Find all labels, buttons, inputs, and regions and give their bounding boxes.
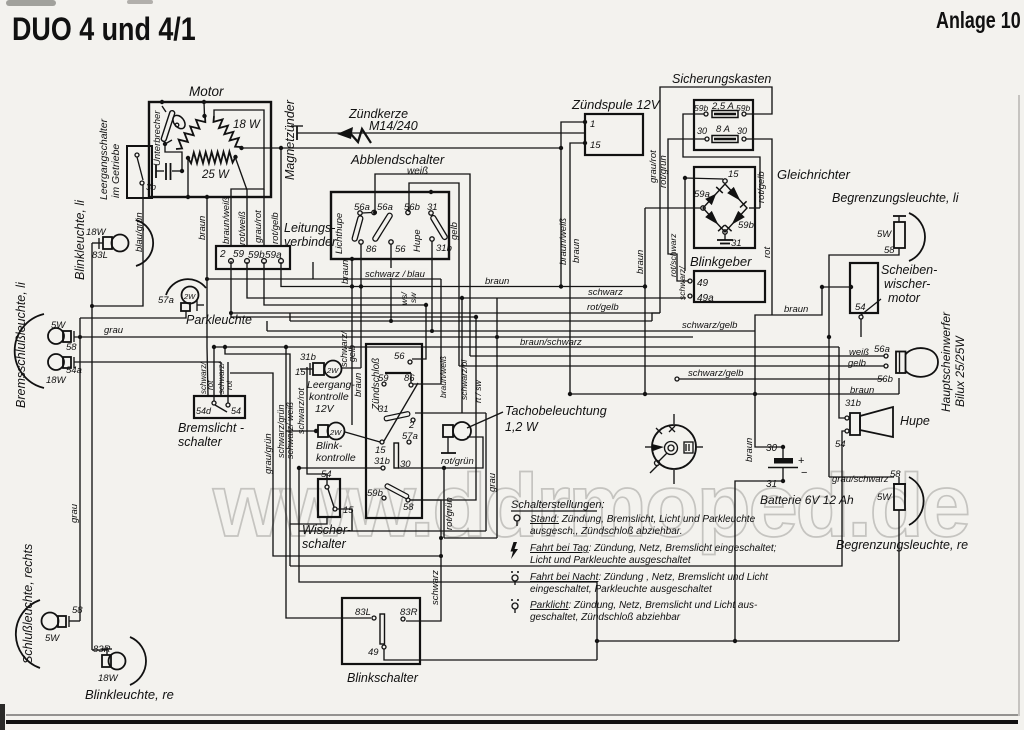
svg-text:56: 56 (395, 244, 406, 255)
svg-text:59b: 59b (694, 103, 708, 113)
svg-text:rot: rot (206, 380, 215, 390)
bus weiss to 56a (470, 355, 884, 357)
svg-text:56a: 56a (377, 202, 393, 213)
svg-text:rot/gelb: rot/gelb (270, 212, 281, 244)
wire schwarz/gruen vertical (286, 347, 371, 618)
svg-text:Blinkleuchte, li: Blinkleuchte, li (73, 199, 87, 280)
capacitor C (155, 165, 157, 178)
svg-text:rot/gelb: rot/gelb (587, 302, 619, 313)
svg-text:rot: rot (225, 380, 234, 390)
wire 31b chain down (299, 468, 597, 582)
svg-text:12V: 12V (315, 403, 335, 415)
svg-text:rot/grün: rot/grün (441, 456, 474, 467)
svg-text:braun/weiß: braun/weiß (558, 218, 569, 265)
wires motor to connector (206, 197, 208, 279)
svg-text:49: 49 (697, 278, 709, 289)
svg-text:58: 58 (72, 605, 83, 616)
svg-text:Schalterstellungen:: Schalterstellungen: (511, 499, 605, 511)
lamp Blinkleuchte re (85, 637, 174, 702)
spark plug Zuendkerze symbol (337, 107, 418, 143)
svg-text:schwarz/: schwarz/ (677, 265, 687, 300)
bus line y321 (290, 320, 652, 322)
svg-text:schalter: schalter (302, 537, 347, 551)
svg-text:braun: braun (635, 250, 646, 274)
svg-text:54: 54 (855, 302, 866, 313)
wire grau/rot loop over fuse box (660, 87, 772, 313)
svg-text:braun: braun (571, 239, 582, 263)
fuse box Sicherungskasten (672, 72, 771, 150)
svg-text:56a: 56a (874, 344, 890, 355)
svg-text:schwarz/gelb: schwarz/gelb (688, 368, 743, 379)
switch Leergangschalter im Getriebe (98, 118, 156, 200)
svg-text:rt / sw: rt / sw (473, 379, 483, 403)
svg-text:Blinkgeber: Blinkgeber (690, 254, 752, 269)
svg-text:grau: grau (69, 503, 80, 523)
svg-text:braun: braun (485, 276, 509, 287)
svg-text:schwarz/bl: schwarz/bl (459, 359, 469, 400)
svg-text:30: 30 (737, 126, 747, 136)
svg-text:Tachobeleuchtung: Tachobeleuchtung (505, 404, 607, 418)
wire HT lead to spark plug (297, 132, 585, 134)
svg-text:Begrenzungsleuchte, li: Begrenzungsleuchte, li (832, 191, 960, 205)
svg-text:wischer-: wischer- (884, 277, 930, 291)
legend Schalterstellungen (511, 499, 777, 623)
bottom border rule (6, 714, 1018, 716)
svg-text:5W: 5W (51, 320, 66, 331)
svg-text:Motor: Motor (189, 84, 224, 99)
bus schwarz/gelb 2 (675, 377, 679, 381)
wire 58 vertical (Parkleuchte to Schlussleuchte) (69, 620, 80, 622)
svg-text:Begrenzungsleuchte, re: Begrenzungsleuchte, re (836, 538, 968, 552)
svg-text:Parklicht: Zündung, Netz, Brem: Parklicht: Zündung, Netz, Bremslicht und… (530, 600, 758, 611)
wire blinkkontrolle left (286, 430, 316, 432)
wire Parkleuchte down-left (80, 311, 186, 318)
bus rot/gelb (231, 312, 660, 314)
svg-text:Leergangschalter: Leergangschalter (98, 118, 110, 200)
svg-text:18 W: 18 W (233, 119, 261, 131)
ignition coil Zuendspule 12V (571, 97, 661, 155)
svg-text:18W: 18W (98, 673, 119, 684)
svg-text:rot/grün: rot/grün (658, 155, 669, 188)
wire rectifier right to rot/gelb (749, 207, 760, 209)
svg-text:15: 15 (728, 169, 739, 180)
svg-text:sw: sw (408, 292, 418, 303)
wire rectifier 59a left (645, 207, 701, 209)
bus gelb to 56b (459, 365, 884, 367)
wire 58 to Blinkschalter (406, 500, 441, 621)
svg-text:Leergang-: Leergang- (307, 379, 355, 391)
svg-text:kontrolle: kontrolle (316, 452, 356, 464)
svg-text:56: 56 (394, 351, 405, 362)
svg-text:Blinkleuchte, re: Blinkleuchte, re (85, 687, 174, 702)
svg-text:braun/schwarz: braun/schwarz (520, 337, 582, 348)
svg-text:18W: 18W (46, 375, 67, 386)
svg-text:Sicherungskasten: Sicherungskasten (672, 72, 771, 86)
svg-text:2W: 2W (326, 366, 339, 375)
svg-text:Licht und Parkleuchte ausgesch: Licht und Parkleuchte ausgeschaltet (530, 555, 692, 566)
wires connector fan-out (207, 279, 208, 396)
svg-text:grau: grau (487, 472, 498, 492)
svg-text:Batterie 6V 12 Ah: Batterie 6V 12 Ah (760, 493, 854, 507)
connector Leitungsverbinder (216, 221, 337, 269)
wire re lamp ground (898, 510, 900, 641)
ground in rectifier (724, 234, 726, 240)
svg-text:grau/schwarz: grau/schwarz (832, 474, 889, 485)
svg-text:blau: blau (407, 269, 426, 280)
svg-text:31: 31 (378, 404, 389, 415)
svg-text:M14/240: M14/240 (369, 119, 418, 133)
wire 58 li lamp (829, 248, 899, 477)
winding resistor 18W (right zigzag) (214, 116, 242, 147)
wire wischer stub (290, 517, 327, 524)
svg-text:58: 58 (66, 342, 77, 353)
svg-text:weiß: weiß (407, 166, 428, 177)
indicator Leergangkontrolle 12V (295, 352, 355, 415)
svg-text:grau: grau (104, 325, 124, 336)
wire wischer to 83L (230, 373, 441, 556)
svg-text:schalter: schalter (178, 435, 223, 449)
svg-text:57a: 57a (158, 295, 174, 306)
wire terminal 1 braun/weiss (561, 122, 585, 287)
horn Hupe (835, 398, 930, 450)
svg-text:31b: 31b (300, 352, 316, 363)
svg-text:schwarz: schwarz (430, 570, 441, 605)
lamp Bremsschlussleuchte li (14, 281, 82, 408)
scan edge line right (1018, 95, 1020, 716)
svg-text:Wischer-: Wischer- (302, 523, 351, 537)
svg-text:86: 86 (404, 373, 415, 384)
svg-text:gelb: gelb (449, 222, 460, 240)
svg-text:Blinkschalter: Blinkschalter (347, 671, 419, 685)
wire weiss from dimmer top (375, 174, 470, 356)
flasher relay Blinkgeber (688, 254, 765, 304)
svg-text:15: 15 (375, 445, 386, 456)
wire ground run to right lamps (597, 640, 899, 642)
svg-text:58: 58 (403, 502, 414, 513)
motor block (149, 84, 563, 246)
diode D2 (727, 187, 740, 201)
wire 83L to 83R vertical (92, 242, 103, 244)
svg-text:Fahrt bei Nacht: Zündung , Net: Fahrt bei Nacht: Zündung , Netz, Bremsli… (530, 572, 769, 583)
svg-text:8 A: 8 A (716, 124, 730, 135)
svg-text:Magnetzünder: Magnetzünder (283, 99, 297, 180)
svg-text:1: 1 (590, 119, 595, 130)
wire gelb from 56b loop (409, 183, 459, 366)
svg-text:59b: 59b (738, 220, 754, 231)
svg-text:rot/gelb: rot/gelb (756, 171, 767, 203)
rectifier Gleichrichter (694, 167, 851, 249)
svg-text:gelb: gelb (848, 358, 866, 369)
wire to 83R (92, 649, 107, 651)
wire blinkkontrolle to 15 (345, 432, 380, 442)
wire terminal 15 braun (570, 143, 585, 394)
svg-text:eingeschaltet, Parkleuchte aus: eingeschaltet, Parkleuchte ausgeschaltet (530, 584, 713, 595)
svg-text:schwarz: schwarz (588, 287, 623, 298)
wires into ignition box right side (412, 305, 426, 359)
battery Batterie 6V 12Ah (760, 443, 854, 507)
wiper switch Wischerschalter (302, 469, 354, 551)
wiper motor Scheibenwischermotor (822, 263, 937, 319)
wire rectifier 15 (685, 178, 723, 179)
svg-text:schwarz/ weiß: schwarz/ weiß (285, 401, 295, 459)
svg-text:5W: 5W (45, 633, 60, 644)
svg-text:Bilux 25/25W: Bilux 25/25W (953, 335, 967, 407)
svg-text:schwarz/rot: schwarz/rot (296, 387, 306, 434)
svg-text:83R: 83R (400, 607, 418, 618)
svg-text:+: + (798, 455, 804, 467)
svg-text:5W: 5W (877, 229, 892, 240)
svg-text:Zündschloß: Zündschloß (371, 358, 382, 411)
svg-text:18W: 18W (86, 227, 107, 238)
svg-text:25 W: 25 W (201, 169, 230, 181)
svg-text:15: 15 (590, 140, 601, 151)
scan smudge top left (6, 0, 56, 6)
svg-text:49: 49 (368, 647, 379, 658)
svg-text:grau/rot: grau/rot (253, 210, 264, 243)
svg-text:31: 31 (731, 238, 742, 249)
lamp Parkleuchte (158, 279, 252, 327)
svg-text:Fahrt bei Tag: Zündung, Netz,: Fahrt bei Tag: Zündung, Netz, Bremslicht… (530, 543, 777, 554)
wire 3b blau/gruen (92, 185, 143, 306)
wire battery 30 (755, 394, 783, 447)
svg-text:5W: 5W (877, 492, 892, 503)
indicator Blinkkontrolle (314, 423, 356, 465)
svg-text:2,5 A: 2,5 A (711, 101, 734, 112)
diode D3 (705, 211, 718, 225)
wire horn 31b (839, 347, 845, 418)
terminal T magneto (296, 126, 298, 140)
svg-text:DUO 4 und 4/1: DUO 4 und 4/1 (12, 12, 196, 48)
svg-text:30: 30 (766, 443, 778, 454)
wire 49 down to ground line (384, 649, 597, 660)
svg-text:verbinder: verbinder (284, 235, 337, 249)
wire 31b left (299, 467, 381, 469)
svg-text:59: 59 (233, 249, 245, 260)
svg-text:Anlage 10: Anlage 10 (936, 8, 1021, 34)
svg-text:Gleichrichter: Gleichrichter (777, 167, 851, 182)
svg-text:braun: braun (744, 438, 755, 462)
wire battery 31 (735, 481, 783, 641)
diode D1 (705, 194, 716, 206)
winding resistor (left zigzag) (176, 116, 205, 149)
svg-text:Blink-: Blink- (316, 440, 343, 452)
wire schwarz/weiss vertical (225, 347, 290, 566)
svg-text:2: 2 (219, 249, 226, 260)
svg-text:Hupe: Hupe (900, 414, 930, 428)
ignition switch contact box Zuendschloss (366, 344, 422, 518)
svg-text:motor: motor (888, 291, 921, 305)
svg-text:2W: 2W (329, 428, 342, 437)
svg-text:ausgesch., Zündschloß abziehba: ausgesch., Zündschloß abziehbar. (530, 526, 683, 537)
lamp Tachobeleuchtung (441, 404, 607, 453)
wire 59b left to rectifier rot/gelb (683, 114, 760, 208)
svg-text:Leitungs-: Leitungs- (284, 221, 335, 235)
svg-text:Abblendschalter: Abblendschalter (350, 152, 445, 167)
svg-text:86: 86 (366, 244, 377, 255)
turn signal switch Blinkschalter (342, 598, 420, 685)
svg-text:rot: rot (762, 247, 773, 258)
svg-text:Parkleuchte: Parkleuchte (186, 313, 252, 327)
svg-text:braun/weiß: braun/weiß (221, 197, 232, 244)
svg-text:3b: 3b (146, 182, 156, 192)
svg-text:kontrolle: kontrolle (309, 391, 349, 403)
svg-text:schwarz /: schwarz / (365, 269, 406, 280)
svg-text:31b: 31b (436, 243, 452, 254)
svg-text:rot/grün: rot/grün (444, 497, 455, 530)
svg-text:Lichthupe: Lichthupe (334, 213, 345, 254)
svg-text:2W: 2W (183, 292, 196, 301)
svg-text:braun: braun (784, 304, 808, 315)
wire 30 left rot/gruen (668, 139, 705, 281)
winding resistor 25W (horizontal zigzag) (188, 152, 236, 164)
svg-text:31b: 31b (374, 456, 390, 467)
svg-text:31b: 31b (845, 398, 861, 409)
svg-text:Zündspule 12V: Zündspule 12V (571, 97, 661, 112)
lamp Schlussleuchte rechts (16, 544, 83, 668)
svg-text:geschaltet, Zündschloß abziehb: geschaltet, Zündschloß abziehbar (530, 612, 681, 623)
diode D4 (732, 211, 745, 225)
wires above brake switch (213, 347, 215, 401)
svg-text:braun/weiß: braun/weiß (438, 356, 448, 398)
svg-text:Scheiben-: Scheiben- (881, 263, 937, 277)
wires dimmer bottom (351, 259, 353, 425)
svg-text:59a: 59a (694, 189, 710, 200)
headlamp Hauptscheinwerfer (848, 311, 967, 412)
svg-text:83L: 83L (92, 250, 108, 261)
svg-text:rot/weiß: rot/weiß (237, 211, 248, 245)
wire 54a to Bremslichtschalter (74, 361, 221, 363)
svg-text:schwarz/gelb: schwarz/gelb (682, 320, 737, 331)
inner frame (214, 110, 264, 246)
ignition lock face Zuendschloss circle (645, 414, 703, 484)
svg-text:54d: 54d (196, 406, 212, 416)
svg-text:30: 30 (697, 126, 707, 136)
lamp Blinkleuchte li (73, 199, 153, 280)
svg-text:Hauptscheinwerfer: Hauptscheinwerfer (939, 311, 953, 412)
svg-text:1,2 W: 1,2 W (505, 420, 539, 434)
svg-text:59b: 59b (367, 488, 383, 499)
switch Abblendschalter (331, 152, 452, 259)
bus braun (headlight) (570, 393, 899, 395)
bus schwarz/gelb 1 (267, 330, 755, 332)
svg-text:54: 54 (231, 406, 241, 416)
svg-text:blau/grün: blau/grün (134, 212, 145, 252)
svg-text:54: 54 (835, 439, 846, 450)
brake light switch Bremslichtschalter (178, 396, 245, 449)
svg-text:−: − (801, 467, 807, 479)
wire 30 right rot (746, 139, 772, 315)
svg-text:braun: braun (340, 260, 351, 284)
svg-text:im Getriebe: im Getriebe (110, 144, 122, 198)
lamp Begrenzungsleuchte re (832, 469, 968, 552)
svg-text:grau/grün: grau/grün (263, 433, 274, 474)
svg-text:83L: 83L (355, 607, 371, 618)
svg-text:Stand: Zündung, Bremslicht, Li: Stand: Zündung, Bremslicht, Licht und Pa… (530, 514, 756, 525)
lamp Begrenzungsleuchte li (832, 191, 960, 261)
wire leergang to braun (342, 367, 361, 369)
svg-text:braun: braun (197, 216, 208, 240)
bus schwarz/blau (207, 278, 441, 280)
bus braun/schwarz (214, 346, 839, 348)
wire grau/schwarz to re lamp (829, 476, 894, 478)
svg-text:Bremsschlußleuchte, li: Bremsschlußleuchte, li (14, 281, 28, 408)
svg-text:Bremslicht -: Bremslicht - (178, 421, 244, 435)
wire grau bus from 5W lamp (74, 336, 693, 338)
wire horn 54 to ground run (290, 431, 845, 566)
svg-text:Hupe: Hupe (412, 229, 423, 252)
svg-text:59b: 59b (736, 103, 750, 113)
wire wiper 54 to grau bus (860, 319, 862, 337)
wire 30 rot/gruen (398, 437, 483, 468)
wire grau vertical mid (496, 298, 498, 538)
svg-text:49a: 49a (697, 293, 714, 304)
